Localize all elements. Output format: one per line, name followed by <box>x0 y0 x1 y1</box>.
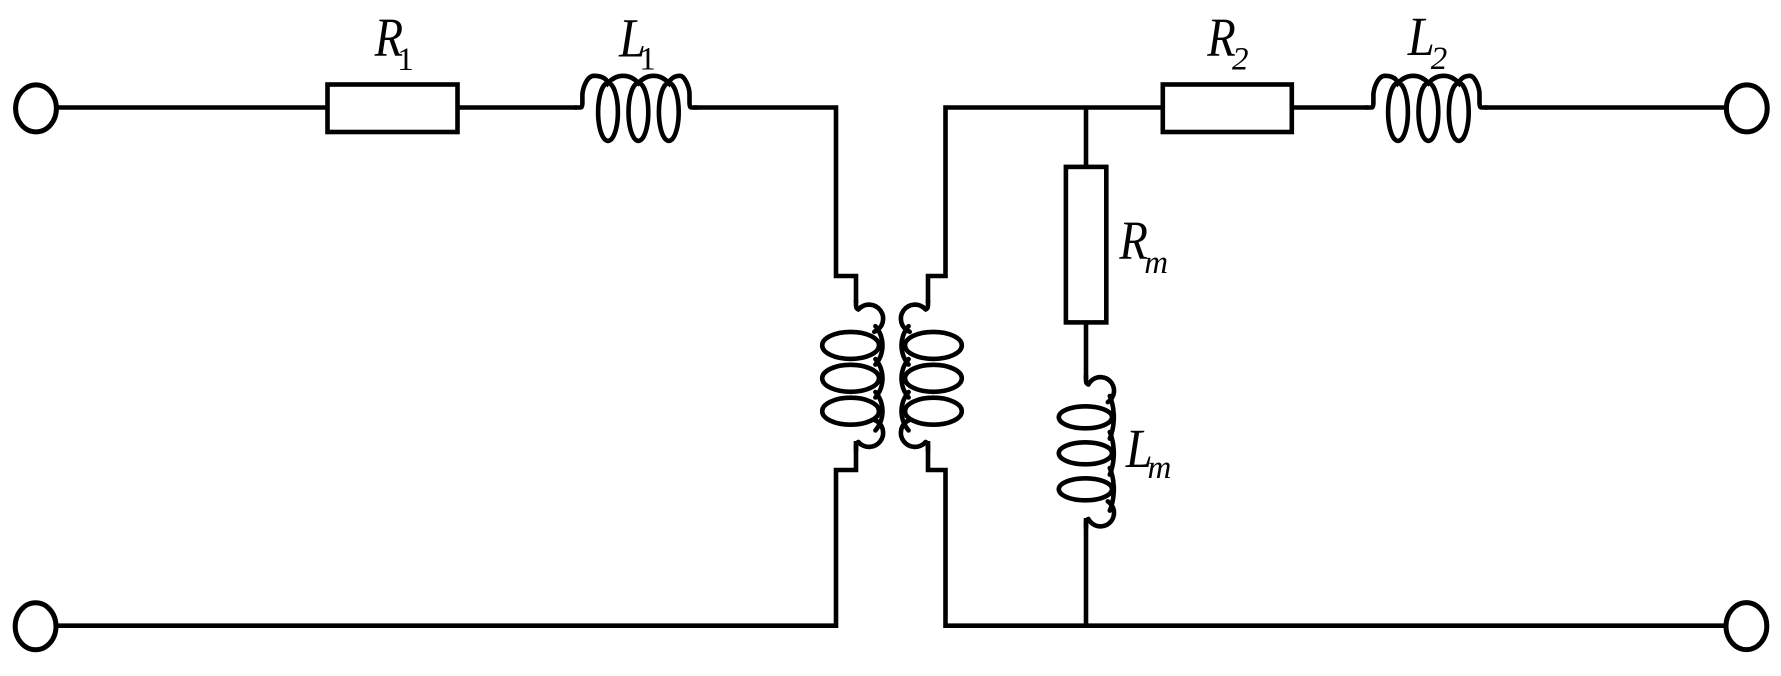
svg-text:2: 2 <box>1431 41 1448 77</box>
wire: L2 to top-right terminal <box>1485 105 1725 110</box>
terminal bottom-left <box>15 603 56 650</box>
wire: Lm to bottom wire <box>1084 518 1089 626</box>
wire: L1 to transformer primary top lead <box>694 108 856 304</box>
label R2 <box>1206 7 1248 78</box>
wire: top-left terminal to R1 <box>58 105 326 110</box>
label L1 <box>618 7 656 77</box>
terminal bottom-right <box>1726 603 1767 650</box>
wire: transformer secondary top lead to node A <box>928 108 1162 304</box>
label R1 <box>374 7 414 78</box>
wire: node A down to Rm <box>1084 108 1089 168</box>
inductor Lm <box>1086 376 1114 529</box>
wire: transformer primary bottom lead to bottom-left terminal <box>57 441 856 626</box>
label Lm <box>1125 418 1171 486</box>
svg-text:1: 1 <box>397 42 414 78</box>
svg-text:m: m <box>1144 245 1168 281</box>
wire: R2 to L2 <box>1291 105 1368 110</box>
resistor R2 <box>1163 85 1292 133</box>
resistor R1 <box>328 85 458 133</box>
svg-text:1: 1 <box>639 42 656 78</box>
svg-text:2: 2 <box>1232 41 1249 77</box>
wire: transformer secondary bottom lead to bottom-right terminal <box>928 441 1725 626</box>
label L2 <box>1407 6 1447 77</box>
wire: R1 to L1 <box>457 105 577 110</box>
terminal top-left <box>16 85 57 132</box>
transformer primary winding T1a <box>856 301 883 452</box>
svg-text:m: m <box>1148 450 1172 486</box>
inductor L2 <box>1365 76 1487 108</box>
label Rm <box>1119 210 1168 281</box>
resistor Rm <box>1066 167 1106 323</box>
transformer secondary winding T1b <box>901 301 962 452</box>
terminal top-right <box>1726 85 1767 132</box>
wire: Rm to Lm <box>1084 322 1089 379</box>
inductor L1 <box>574 76 697 108</box>
